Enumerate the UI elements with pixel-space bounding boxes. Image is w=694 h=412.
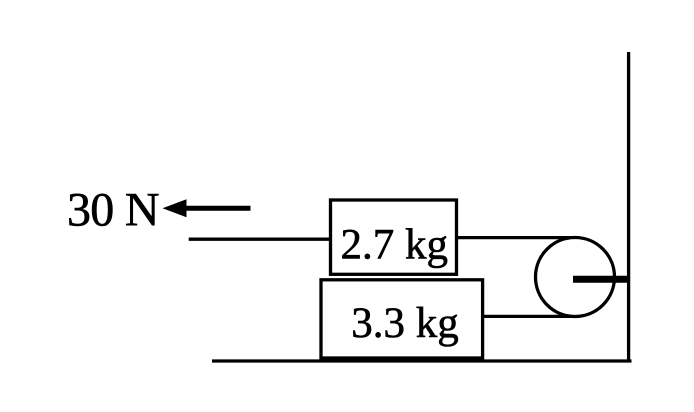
svg-text:30 N: 30 N bbox=[67, 183, 159, 236]
block 3.3 kg bbox=[321, 280, 483, 358]
svg-text:2.7 kg: 2.7 kg bbox=[341, 221, 449, 268]
wire bbox=[189, 238, 332, 241]
axle bbox=[573, 276, 629, 283]
wall bbox=[627, 52, 630, 362]
wire bbox=[455, 236, 576, 239]
wire bbox=[481, 315, 576, 318]
svg-text:3.3 kg: 3.3 kg bbox=[351, 300, 459, 347]
pulley bbox=[536, 238, 615, 317]
force arrow bbox=[184, 206, 251, 211]
block 2.7 kg bbox=[331, 200, 457, 274]
floor bbox=[212, 359, 632, 362]
